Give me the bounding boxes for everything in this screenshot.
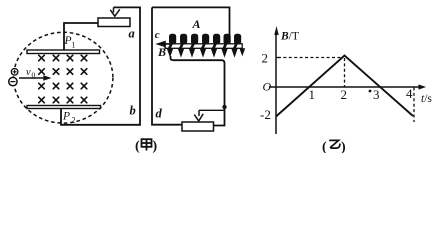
svg-text:v: v xyxy=(26,67,31,78)
svg-text:0: 0 xyxy=(32,71,36,80)
svg-text:2: 2 xyxy=(341,87,348,102)
svg-text:): ) xyxy=(153,139,158,153)
svg-text:B/T: B/T xyxy=(280,31,299,43)
svg-text:t/s: t/s xyxy=(421,93,432,105)
svg-text:4: 4 xyxy=(406,86,413,101)
svg-text:-2: -2 xyxy=(260,107,271,122)
svg-text:3: 3 xyxy=(373,87,380,102)
svg-text:1: 1 xyxy=(72,41,76,50)
svg-text:(: ( xyxy=(322,140,327,153)
svg-text:d: d xyxy=(156,107,163,121)
svg-text:c: c xyxy=(155,29,160,41)
svg-text:P: P xyxy=(62,111,70,123)
svg-text:A: A xyxy=(192,17,201,31)
svg-text:(: ( xyxy=(135,139,140,153)
svg-text:): ) xyxy=(341,140,346,153)
svg-text:2: 2 xyxy=(262,51,269,66)
svg-text:P: P xyxy=(64,35,72,47)
svg-text:b: b xyxy=(130,104,136,118)
svg-text:2: 2 xyxy=(72,116,76,125)
svg-text:1: 1 xyxy=(309,87,316,102)
svg-text:O: O xyxy=(263,80,272,94)
svg-text:a: a xyxy=(129,27,135,41)
svg-text:B: B xyxy=(157,45,166,59)
